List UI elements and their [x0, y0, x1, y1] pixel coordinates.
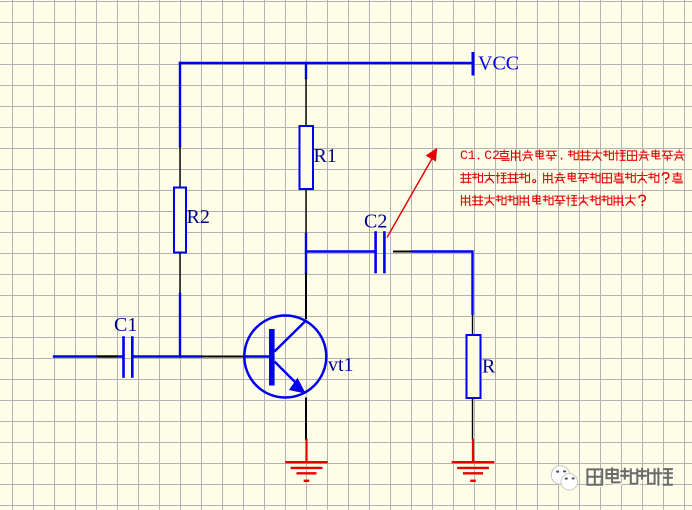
annotation text line 3: [461, 195, 645, 206]
wire C2 to R: [411, 252, 473, 316]
wire VCC rail: [180, 62, 473, 65]
wire C1 to base node: [134, 355, 202, 357]
wire R2 to base node: [179, 294, 181, 357]
svg-text:C2: C2: [484, 148, 500, 163]
wire input left: [54, 355, 122, 357]
ground (R): [452, 440, 495, 481]
pin R top: [472, 315, 474, 335]
resistor R2: [174, 188, 186, 253]
wire rail to R1: [305, 63, 307, 78]
pin R1 top: [305, 78, 307, 126]
pin R2 top: [179, 146, 181, 188]
pin R2 bottom: [179, 253, 181, 295]
annotation text line 2: [461, 173, 682, 184]
svg-text:R2: R2: [187, 206, 210, 228]
pin R bottom: [472, 398, 474, 440]
svg-text:R: R: [482, 356, 496, 378]
power VCC bar: [472, 54, 475, 75]
pin collector: [305, 273, 307, 319]
wire rail to R2: [179, 63, 181, 146]
svg-text:VCC: VCC: [478, 53, 519, 75]
svg-text:C2: C2: [364, 211, 387, 233]
watermark logo circles: [551, 466, 577, 490]
ground (emitter): [285, 440, 328, 481]
resistor R1: [300, 126, 314, 189]
transistor vt1: [244, 316, 326, 398]
capacitor C1: [124, 338, 133, 377]
resistor R: [467, 335, 481, 398]
pin C1 left: [97, 356, 118, 358]
wire R1 to collector node: [305, 234, 307, 273]
annotation text line 1: [460, 148, 684, 163]
pin R1 bottom: [305, 189, 307, 234]
svg-text:C1: C1: [114, 314, 137, 336]
capacitor C2: [376, 233, 385, 273]
pin C2 right: [393, 251, 411, 253]
svg-text:vt1: vt1: [328, 354, 354, 376]
svg-text:C1: C1: [460, 148, 476, 163]
pin base: [201, 356, 244, 358]
wire collector to C2: [306, 250, 375, 252]
pin emitter: [305, 398, 307, 441]
svg-text:R1: R1: [314, 145, 337, 167]
annotation arrow: [387, 148, 437, 238]
watermark text 面包板社区: [587, 468, 673, 486]
